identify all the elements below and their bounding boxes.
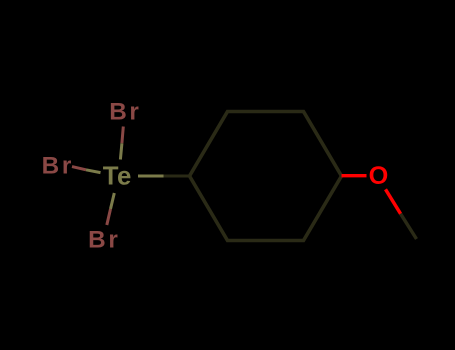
benzene ring: [190, 112, 342, 241]
bond Te-C(ring) carbon half: [164, 175, 190, 178]
bond Te-Br left, Br half: [72, 167, 86, 170]
bond O-CH3, O half: [386, 189, 401, 214]
bond Te-C(ring) olive half: [138, 175, 164, 178]
bond Te-Br left, Te half: [86, 170, 101, 173]
svg-text:Br: Br: [42, 152, 74, 179]
bond Te-Br bottom, Te half: [111, 193, 115, 209]
svg-text:O: O: [369, 162, 389, 190]
svg-text:Br: Br: [88, 226, 120, 253]
bond Te-Br top, Br half: [122, 127, 123, 144]
bond C(ring)-O: [342, 174, 367, 177]
bond Te-Br top, Te half: [120, 143, 122, 159]
svg-text:Br: Br: [109, 98, 141, 125]
bond O-CH3, C half: [401, 214, 417, 239]
svg-text:Te: Te: [103, 163, 132, 191]
bond Te-Br bottom, Br half: [107, 209, 111, 225]
